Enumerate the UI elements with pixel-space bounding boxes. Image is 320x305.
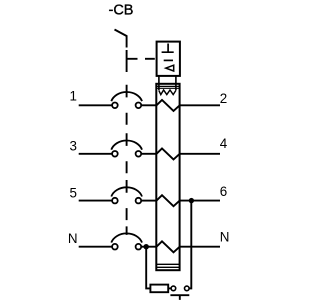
contact circle 2a [112,151,118,157]
wire 3 left [79,153,113,155]
wire 6 right [180,200,220,202]
test contact circle b [185,286,190,291]
test contact circle a [171,286,176,291]
wire to toroid [141,104,156,106]
test wire right [189,201,191,289]
relay symbol inverted T [162,44,174,53]
pole 1 [70,88,228,111]
wire resistor to test contact [168,287,171,289]
toroid core box [156,84,179,270]
relay symbol triangle [166,65,174,71]
svg-text:2: 2 [220,91,227,106]
svg-text:N: N [68,231,78,246]
relay symbol bar [164,59,173,61]
mechanical link dash to trip relay [145,58,155,60]
contact circle Nb [136,244,142,250]
contact circle 3b [136,198,142,204]
conductor kink in toroid [157,148,180,159]
conductor kink in toroid [157,195,180,206]
pole 3 [70,184,228,206]
contact arc N [111,233,142,242]
conductor kink in toroid [157,100,180,111]
wire 4 right [180,153,220,155]
core lamination lines top [156,86,179,88]
wire N right [180,246,220,248]
core lamination lines bottom [156,264,179,267]
svg-text:6: 6 [220,184,227,199]
contact circle 2b [136,151,142,157]
manual actuator lever [115,30,127,48]
svg-text:5: 5 [70,185,77,200]
junction node on wire 6 [189,198,194,203]
contact circle 1b [136,103,142,109]
test button actuator [170,295,189,300]
wire N left [79,246,113,248]
svg-text:3: 3 [70,139,77,154]
svg-text:-CB: -CB [109,3,134,19]
svg-text:N: N [220,230,230,245]
wire to toroid [141,246,156,248]
contact arc 1 [111,92,142,101]
pole N [68,230,230,253]
linkage dashed line [126,85,128,235]
wire 2 right [180,104,220,106]
svg-text:1: 1 [70,88,77,103]
contact arc 2 [111,141,142,150]
wire 5 left [79,200,113,202]
secondary winding zigzag [159,90,176,95]
mechanism latch bar [127,50,138,72]
wire to toroid [141,153,156,155]
contact circle 1a [112,103,118,109]
contact circle Na [112,244,118,250]
test wire left [146,247,150,289]
wire 1 left [79,104,113,106]
junction node on wire N [144,244,149,249]
test resistor [150,285,168,293]
contact arc 3 [111,187,142,196]
conductor kink in toroid [157,241,180,252]
contact circle 3a [112,198,118,204]
trip relay box U1 [157,42,180,76]
pole 2 [70,136,228,159]
wire to toroid [141,200,156,202]
svg-text:4: 4 [220,136,228,151]
secondary winding legs [159,76,176,90]
